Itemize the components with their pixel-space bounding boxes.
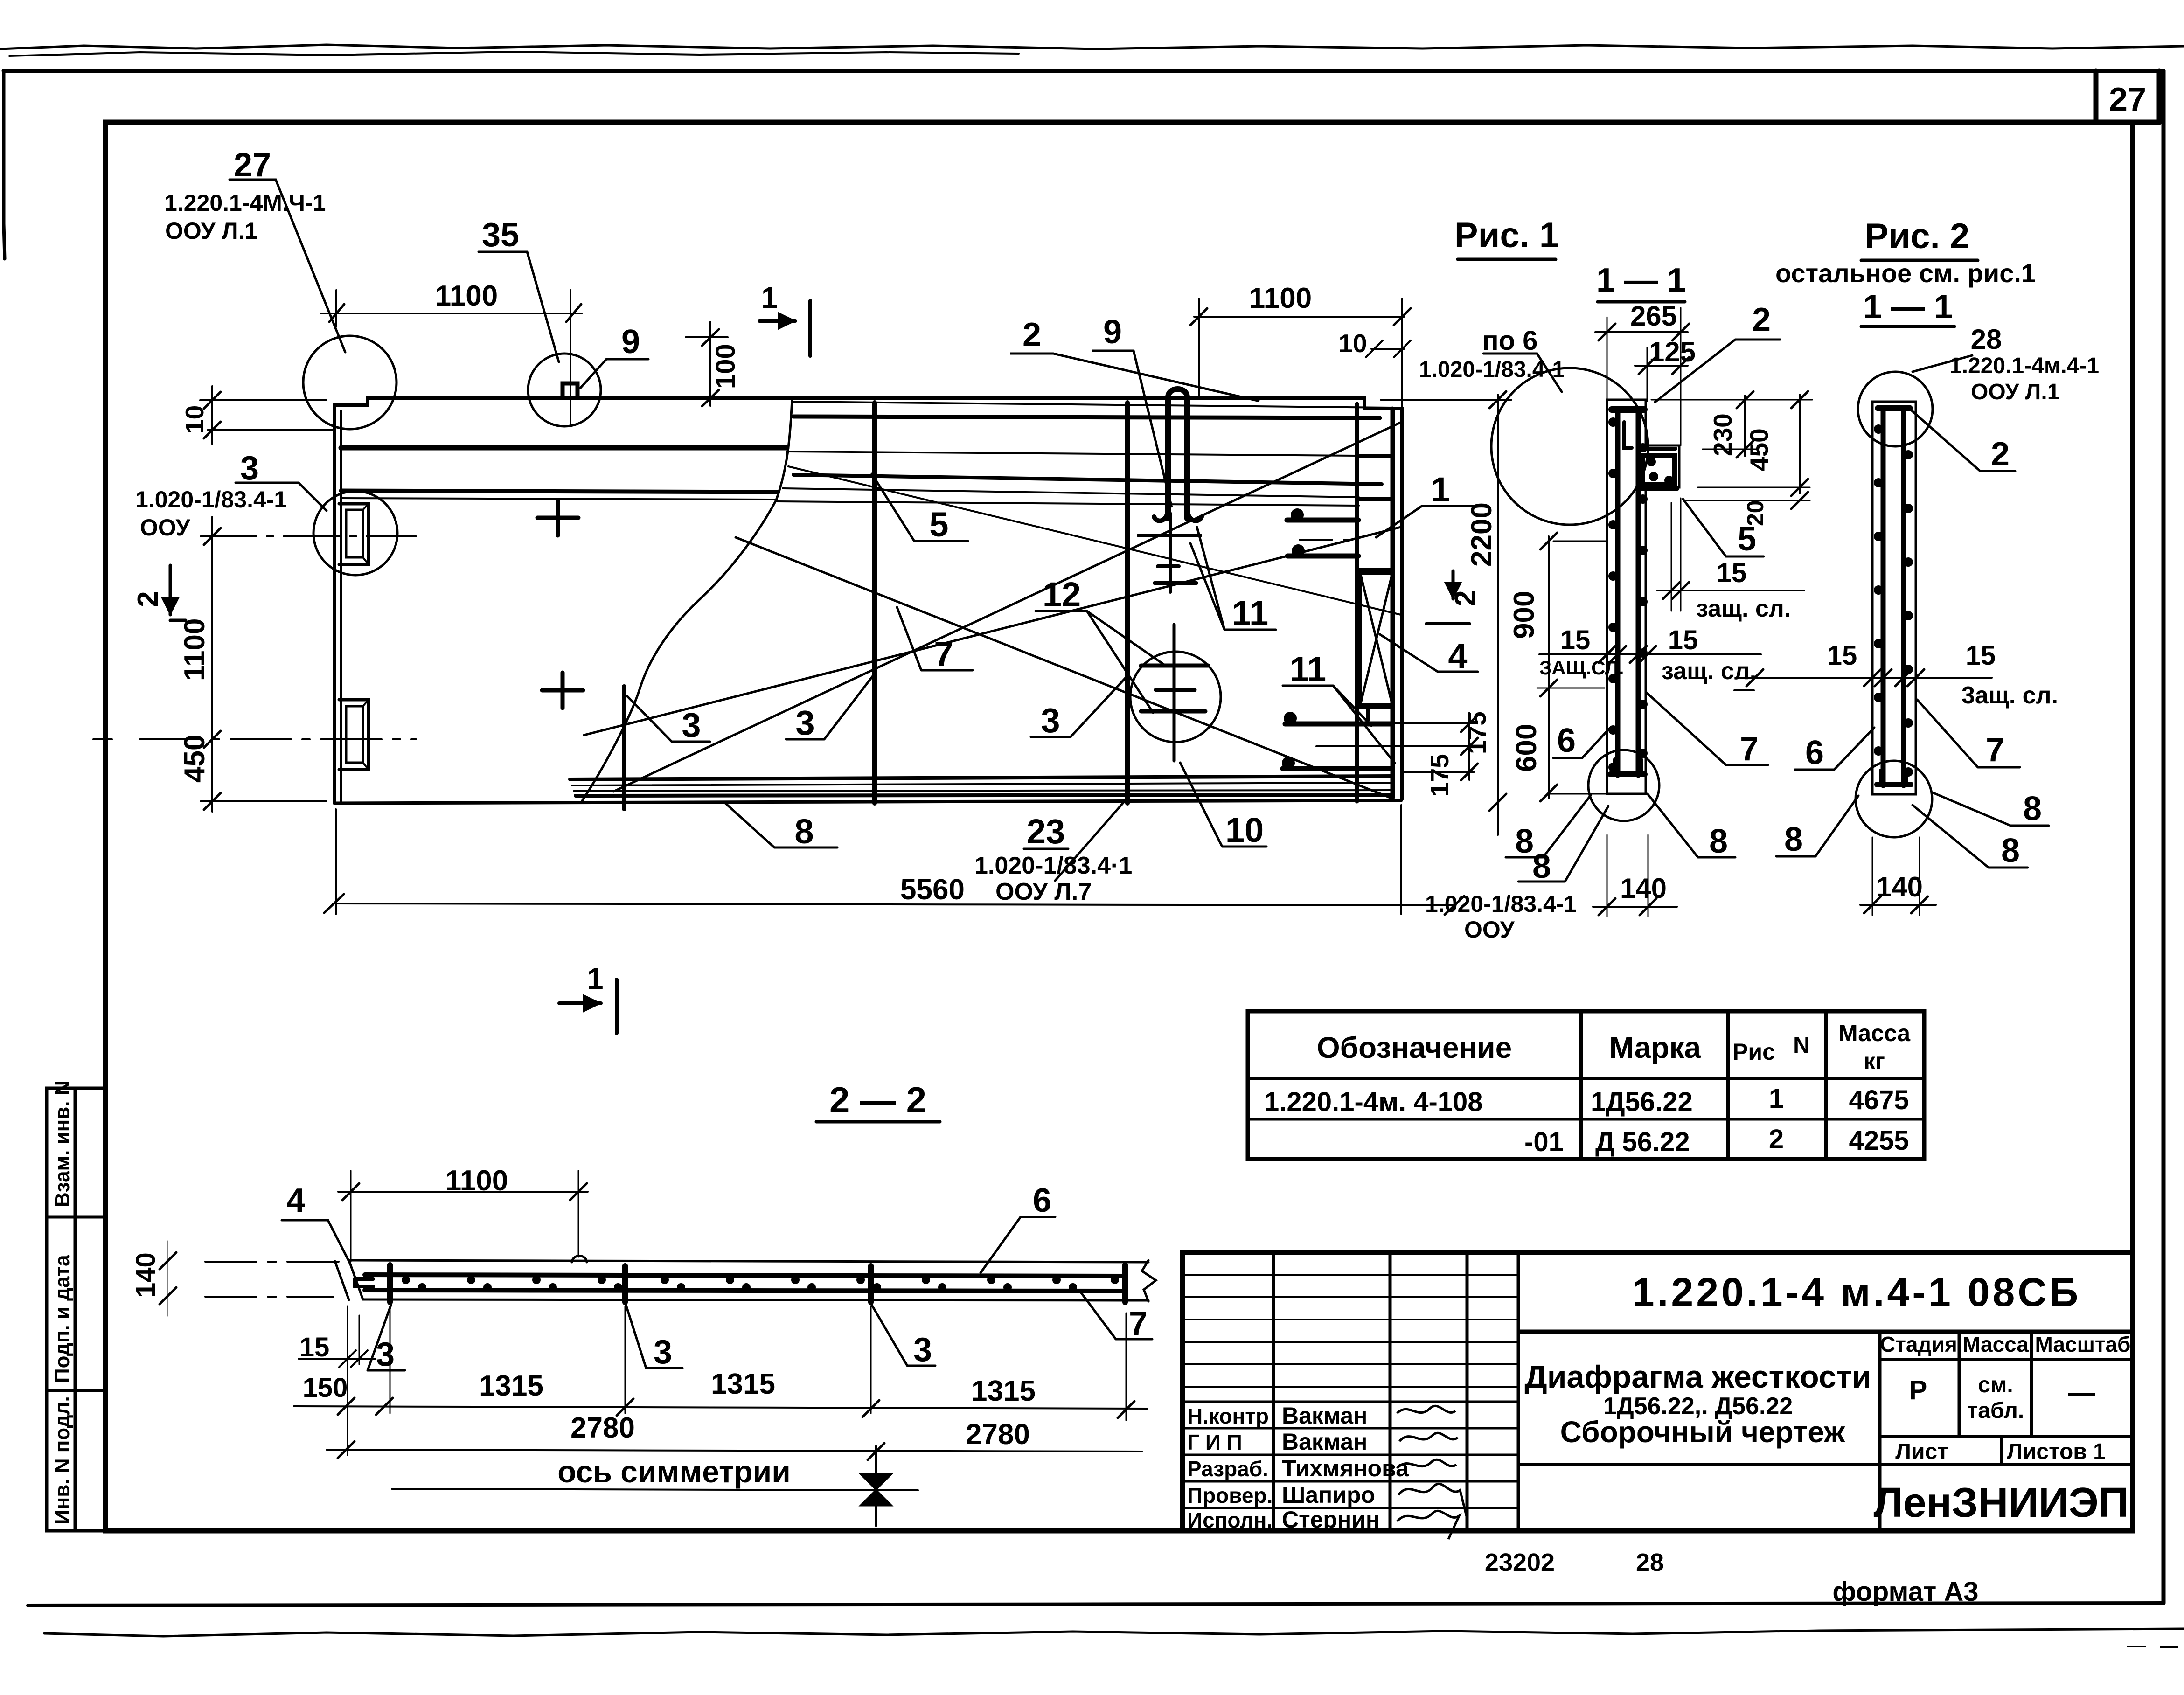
svg-text:1Д56.22: 1Д56.22 [1591, 1087, 1693, 1117]
svg-text:28: 28 [1636, 1549, 1664, 1577]
dim 450-20 ticks [1791, 391, 1808, 509]
svg-text:ЗАЩ.СЛ.: ЗАЩ.СЛ. [1539, 657, 1624, 679]
2-2 anchor bar 3 [868, 1266, 874, 1302]
dim 1100 left vertical line [211, 517, 213, 812]
svg-text:15: 15 [1966, 640, 1996, 671]
diagonal brace D2 [736, 537, 1390, 798]
svg-text:8: 8 [794, 812, 814, 851]
Ris1 cage top bar [1612, 406, 1644, 413]
svg-text:защ. сл.: защ. сл. [1662, 658, 1756, 685]
lower embedded item poz.3 outline [339, 700, 369, 770]
vertical bar 3b full height [872, 403, 877, 803]
cover line Ris2 [1740, 677, 1992, 679]
svg-text:7: 7 [1740, 730, 1759, 768]
panel left edge double line [333, 405, 336, 803]
leader 8c Ris1 [1648, 794, 1735, 857]
svg-text:Вакман: Вакман [1282, 1403, 1367, 1429]
dim 2200 ticks [1489, 391, 1506, 811]
leader 28 Ris2 [1913, 355, 1972, 372]
svg-text:8: 8 [1709, 823, 1728, 860]
svg-text:Рис: Рис [1732, 1039, 1775, 1065]
dim 1100 top-left ext lines [336, 290, 570, 425]
leader 27 [230, 180, 345, 352]
svg-text:1315: 1315 [479, 1370, 543, 1402]
svg-text:3: 3 [913, 1331, 932, 1369]
dim 5560 ticks [324, 894, 1464, 915]
dim 140 2-2 ticks [160, 1252, 176, 1304]
dot rebar end upper a [1291, 508, 1304, 521]
svg-text:6: 6 [1557, 722, 1576, 759]
svg-text:формат А3: формат А3 [1832, 1577, 1978, 1607]
leader 10 bottom [1180, 763, 1266, 847]
ext lines 230/450/20 [1651, 400, 1812, 500]
2-2 loop hump [572, 1256, 587, 1263]
svg-text:1: 1 [1431, 470, 1450, 509]
leader 8 right1 Ris2 [1934, 793, 2049, 826]
svg-text:Инв. N подл.: Инв. N подл. [51, 1396, 74, 1524]
cross mark 1 [537, 500, 578, 535]
svg-text:Рис. 1: Рис. 1 [1454, 215, 1559, 255]
Ris1 detail circle top [1491, 368, 1648, 525]
Ris1 console ledge [1638, 449, 1677, 489]
leader 7 Ris2 [1917, 700, 2020, 767]
Ris1 cage bottom bar [1610, 771, 1645, 777]
dim 175 ext lines right [1316, 723, 1474, 772]
Ris1 1-1 underline [1598, 300, 1685, 304]
dim 900/600 ticks [1540, 533, 1557, 801]
svg-text:2: 2 [132, 591, 164, 607]
cover dim upper ext lines [1671, 498, 1681, 611]
leader 3-2 2-2 [626, 1305, 682, 1368]
detail circle around middle tie [1130, 652, 1221, 742]
list row top line [1880, 1435, 2133, 1438]
dim 10 left ticks [204, 392, 221, 438]
top mesh thin pair right portion [783, 488, 1359, 497]
svg-text:Н.контр: Н.контр [1187, 1404, 1269, 1428]
cover dim upper: line, ticks [1657, 590, 1804, 591]
svg-text:2: 2 [1449, 590, 1482, 606]
dim 1100 left ticks [204, 528, 221, 810]
dim 2200 line [1497, 395, 1499, 835]
spec table outer box [1248, 1011, 1924, 1159]
Ris1 cage bottom hooks [1615, 759, 1641, 774]
svg-text:Масштаб: Масштаб [2035, 1332, 2131, 1356]
svg-text:1: 1 [761, 281, 778, 314]
section mark 1 bottom [559, 979, 617, 1033]
dim 2780 ticks [338, 1441, 884, 1460]
bar poz.11 lower a [1285, 722, 1391, 727]
leader 6 2-2 [981, 1217, 1055, 1273]
svg-text:2: 2 [1769, 1124, 1784, 1154]
dot rebar end lower b [1282, 757, 1295, 770]
spec table header line [1248, 1077, 1924, 1080]
panel top edge with corner notches [334, 398, 1402, 409]
dim 450 line [1799, 395, 1801, 493]
Ris2 rebar dots right [1904, 450, 1913, 777]
diagonal brace D3 [584, 527, 1401, 735]
svg-text:Диафрагма жесткости: Диафрагма жесткости [1524, 1359, 1871, 1395]
svg-text:15: 15 [1827, 640, 1857, 671]
svg-text:ООУ: ООУ [1464, 917, 1515, 943]
dim 1100 left ext lines [201, 800, 327, 802]
leader 3c [1031, 677, 1126, 737]
svg-text:2 — 2: 2 — 2 [829, 1079, 926, 1120]
dim chain 2-2 ext verticals [348, 1306, 1126, 1455]
svg-text:23: 23 [1027, 812, 1065, 851]
stadia header underline [1880, 1358, 2133, 1361]
upper embedded item poz.3 outline [339, 504, 369, 564]
svg-text:9: 9 [621, 323, 640, 361]
middle tie poz.12 vertical [1173, 625, 1176, 761]
ladder rung under X-box [1357, 705, 1392, 709]
svg-text:Вакман: Вакман [1282, 1429, 1367, 1455]
svg-text:7: 7 [1986, 731, 2004, 769]
svg-text:Д 56.22: Д 56.22 [1595, 1127, 1690, 1157]
2-2 axis dash line lower [205, 1296, 334, 1298]
dim 1100 top-right line [1194, 316, 1404, 318]
svg-text:Тихмянова: Тихмянова [1282, 1455, 1409, 1481]
2-2 left bevel cut [335, 1260, 363, 1300]
svg-text:ООУ: ООУ [140, 514, 191, 541]
top chord double line left portion [341, 491, 778, 492]
Ris2 cage bottom hooks [1881, 771, 1906, 785]
Ris2 cage top bar [1878, 405, 1910, 411]
svg-text:150: 150 [303, 1373, 348, 1403]
top edge thin line right portion [793, 402, 1393, 408]
dim 5560 line [333, 903, 1453, 905]
Ris1 rebar dots left [1608, 417, 1618, 772]
2-2 anchor bar 1 [387, 1265, 393, 1302]
outer sheet border right [2162, 71, 2166, 1603]
po 6 underline and leader [1483, 354, 1562, 392]
title block outer box [1182, 1252, 2133, 1531]
leader 3a [627, 696, 710, 742]
diagonal brace D1 [613, 422, 1401, 792]
Ris2 detail circle bottom [1856, 761, 1932, 837]
axis line of lower item [93, 738, 416, 740]
svg-text:Листов 1: Листов 1 [2007, 1439, 2106, 1464]
svg-text:Г И П: Г И П [1187, 1430, 1242, 1454]
bar poz.1 upper b [1287, 554, 1358, 559]
2-2 top rebar [365, 1275, 1125, 1276]
leader 9 top second [1092, 351, 1172, 507]
list row divider [2000, 1437, 2003, 1465]
dot rebar end upper b [1292, 544, 1305, 557]
spec table row line [1248, 1118, 1924, 1121]
leader 3-1 2-2 [368, 1305, 405, 1370]
svg-text:140: 140 [131, 1252, 161, 1298]
dim 125 line and ticks [1635, 365, 1688, 367]
svg-text:450: 450 [179, 735, 211, 783]
list row bottom line [1518, 1463, 2133, 1466]
leader 8b Ris1 [1518, 806, 1608, 882]
diagonal brace D4 [788, 466, 1401, 615]
vertical bar 3c full height [1125, 403, 1130, 803]
svg-text:230: 230 [1708, 413, 1737, 456]
ladder rung 2 [1357, 497, 1392, 501]
bar poz.11 lower b [1283, 766, 1391, 771]
detail circle top-left corner 27 [303, 336, 396, 429]
svg-text:Шапиро: Шапиро [1282, 1482, 1375, 1508]
end X-box [1360, 573, 1392, 705]
dim 10 left line [211, 386, 213, 444]
lifting loop poz.9 [1168, 389, 1187, 519]
torn paper bottom edge [44, 1629, 2184, 1636]
svg-text:4675: 4675 [1849, 1085, 1909, 1115]
svg-text:8: 8 [2001, 832, 2020, 869]
cover line mid ticks [1599, 646, 1656, 663]
svg-text:1.220.1-4м.4-1: 1.220.1-4м.4-1 [1949, 354, 2099, 378]
Ris2 title underline [1861, 259, 1978, 262]
dim 140 Ris2 ext [1872, 837, 1920, 915]
leader 2 Ris1 [1655, 340, 1780, 402]
svg-text:ось симметрии: ось симметрии [557, 1454, 791, 1489]
svg-text:7: 7 [1129, 1305, 1148, 1342]
svg-text:5: 5 [1738, 521, 1756, 558]
svg-text:28: 28 [1971, 324, 2002, 355]
svg-text:23202: 23202 [1485, 1549, 1555, 1577]
cover short line left Ris2 [1734, 689, 1754, 691]
leader 11 lower [1283, 686, 1395, 763]
Ris1 rebar dots right [1638, 443, 1674, 758]
dim 140 2-2 line [167, 1241, 168, 1316]
svg-text:см.: см. [1978, 1373, 2013, 1397]
leader 6 Ris1 [1553, 729, 1609, 758]
dim 175 vertical [1468, 713, 1470, 780]
svg-text:Исполн.: Исполн. [1187, 1508, 1273, 1532]
svg-text:1.220.1-4 м.4-1 08СБ: 1.220.1-4 м.4-1 08СБ [1632, 1270, 2081, 1315]
leader 23 [1024, 799, 1127, 881]
svg-text:9: 9 [1103, 313, 1122, 351]
leader 11 upper [1190, 527, 1276, 630]
svg-text:3ащ. сл.: 3ащ. сл. [1961, 682, 2058, 709]
dim 1100 top-right ext [1199, 299, 1402, 408]
svg-text:8: 8 [1784, 821, 1803, 858]
upper tie bars [1139, 534, 1200, 537]
axis of symmetry line [392, 1489, 918, 1490]
Ris1 detail circle bottom [1588, 750, 1659, 821]
svg-text:3: 3 [682, 706, 701, 744]
top mesh line right portion [787, 452, 1357, 456]
svg-text:8: 8 [1515, 823, 1534, 860]
2-2 axis dash line upper [205, 1261, 345, 1263]
svg-text:15: 15 [1717, 558, 1747, 588]
dim 100 ticks [702, 329, 719, 406]
outer sheet border top [4, 69, 2163, 73]
axis line of upper item [201, 535, 416, 537]
Ris1 console rebar box [1642, 456, 1675, 485]
panel right edge double line [1400, 409, 1404, 799]
title block column lines left part [1273, 1252, 1518, 1531]
leader 8 [725, 803, 837, 847]
svg-text:Масса: Масса [1838, 1020, 1911, 1046]
svg-text:15: 15 [1560, 625, 1591, 655]
svg-text:15: 15 [1668, 625, 1698, 655]
svg-text:Лист: Лист [1895, 1439, 1948, 1464]
2-2 slab bottom edge [363, 1299, 1148, 1300]
end ladder vertical inner [1355, 404, 1359, 801]
svg-text:1315: 1315 [971, 1375, 1036, 1407]
svg-text:11: 11 [1232, 594, 1268, 632]
svg-text:125: 125 [1649, 336, 1696, 368]
dim 1100 top-left line [321, 313, 582, 314]
svg-text:11: 11 [1290, 650, 1326, 688]
dot rebar end lower a [1284, 712, 1297, 725]
svg-text:1100: 1100 [445, 1165, 508, 1197]
svg-text:175: 175 [1462, 711, 1491, 754]
svg-text:1 — 1: 1 — 1 [1863, 288, 1953, 326]
loop hook left [1154, 511, 1168, 521]
svg-text:1.220.1-4м. 4-108: 1.220.1-4м. 4-108 [1264, 1087, 1483, 1117]
leader 9 [580, 359, 648, 388]
spec table column lines [1581, 1011, 1826, 1159]
2-2 rebar dots upper row [402, 1276, 1119, 1284]
svg-text:-01: -01 [1524, 1127, 1564, 1157]
svg-text:900: 900 [1508, 591, 1540, 639]
leader 3-3 2-2 [872, 1305, 935, 1366]
svg-text:6: 6 [1805, 734, 1824, 771]
svg-text:Подп. и дата: Подп. и дата [51, 1255, 74, 1383]
svg-text:по 6: по 6 [1482, 326, 1538, 356]
Ris1 cage left bar [1615, 410, 1621, 775]
upper tie poz.11 vertical [1169, 513, 1172, 592]
svg-text:4: 4 [1448, 637, 1467, 675]
leader 3b [786, 675, 873, 739]
ladder rung top [1357, 454, 1392, 458]
dim 100 ext [686, 336, 728, 338]
signature squiggles [1397, 1406, 1467, 1539]
Ris2 column concrete outline [1872, 402, 1916, 794]
outer sheet border left (partial) [4, 71, 5, 259]
svg-text:1.020-1/83.4·1: 1.020-1/83.4·1 [974, 852, 1132, 879]
outer sheet border bottom [28, 1603, 2163, 1605]
svg-text:кг: кг [1864, 1048, 1885, 1074]
sidebar cell divider 2 [47, 1389, 105, 1392]
leader 4 right [1380, 634, 1478, 672]
leader 35 [479, 252, 559, 362]
leader 2 top [1010, 354, 1259, 401]
ladder stub [1366, 707, 1370, 721]
svg-text:2780: 2780 [966, 1418, 1030, 1451]
svg-text:2: 2 [1991, 436, 2010, 473]
svg-text:140: 140 [1876, 871, 1923, 903]
detail circle around upper embedded item [313, 491, 397, 575]
Ris1 cage hook top [1624, 422, 1632, 448]
svg-text:265: 265 [1630, 300, 1677, 332]
dim 1100 2-2 ticks [342, 1183, 587, 1200]
ladder rung 3 [1357, 568, 1392, 572]
dim 1100 2-2 line [338, 1191, 588, 1193]
section mark 1 top [759, 301, 810, 356]
svg-text:3: 3 [1041, 701, 1060, 740]
dim 140 Ris2 line/ticks [1860, 904, 1936, 906]
svg-text:ООУ Л.1: ООУ Л.1 [165, 218, 257, 244]
leader 2 Ris2 [1912, 410, 2015, 471]
svg-text:2: 2 [1022, 316, 1041, 354]
footer dashes right [2127, 1646, 2178, 1647]
sheet number box 27 [2096, 71, 2159, 122]
svg-text:Стернин: Стернин [1282, 1507, 1380, 1533]
end X-box diagonals [1360, 573, 1392, 705]
end ladder vertical outer [1391, 409, 1395, 799]
svg-text:3: 3 [376, 1336, 395, 1373]
svg-text:2200: 2200 [1466, 502, 1498, 567]
dim 175 ticks [1461, 715, 1478, 780]
svg-text:Разраб.: Разраб. [1187, 1457, 1268, 1481]
Ris2 detail circle top [1858, 372, 1933, 446]
cross mark 2 [542, 673, 583, 708]
dim 2780 line [327, 1450, 1142, 1452]
leader 1 right [1376, 506, 1473, 537]
Ris2 cage right bar [1901, 408, 1906, 785]
svg-text:Марка: Марка [1609, 1031, 1701, 1064]
svg-text:5560: 5560 [900, 874, 965, 906]
section mark 2 left [170, 565, 186, 620]
left stamp sidebar [47, 1088, 105, 1531]
svg-text:Стадия: Стадия [1880, 1332, 1957, 1356]
svg-text:175: 175 [1425, 754, 1454, 797]
svg-text:N: N [1793, 1032, 1810, 1058]
svg-text:1315: 1315 [711, 1368, 775, 1400]
leader 3 left [236, 483, 327, 511]
stadia columns [1880, 1332, 2031, 1531]
dim 5560 ext lines [336, 805, 1401, 914]
dim 140 Ris1 ext [1607, 835, 1648, 917]
svg-text:3: 3 [795, 703, 814, 742]
svg-text:остальное см. рис.1: остальное см. рис.1 [1775, 258, 2036, 288]
sidebar cell divider 1 [47, 1216, 105, 1219]
svg-text:27: 27 [234, 146, 271, 184]
svg-text:2: 2 [1752, 301, 1771, 339]
svg-text:—: — [2068, 1377, 2095, 1408]
top chord bar left portion [341, 445, 787, 451]
svg-text:Рис. 2: Рис. 2 [1865, 216, 1969, 256]
vertical bar 3a short [622, 687, 626, 809]
svg-text:ООУ Л.7: ООУ Л.7 [995, 878, 1092, 905]
2-2 anchor bar 2 [622, 1266, 628, 1302]
dim 15 2-2 line/ticks [299, 1350, 376, 1367]
dim 10 top-right [1366, 340, 1411, 357]
dim chain ticks [338, 1398, 1134, 1418]
svg-text:3: 3 [240, 450, 259, 487]
svg-text:10: 10 [180, 405, 209, 434]
svg-text:1 — 1: 1 — 1 [1596, 262, 1686, 299]
svg-text:Обозначение: Обозначение [1317, 1031, 1512, 1064]
2-2 left anchor detail [355, 1279, 373, 1286]
dim 230 ticks [1737, 391, 1753, 458]
svg-text:5: 5 [929, 505, 948, 544]
leader 5 Ris1 [1683, 499, 1764, 556]
2-2 title underline [816, 1120, 940, 1124]
svg-text:600: 600 [1510, 724, 1543, 772]
leader 7 [897, 607, 973, 670]
svg-text:35: 35 [482, 216, 519, 254]
symmetry bowtie [860, 1474, 892, 1506]
svg-text:Р: Р [1909, 1375, 1927, 1405]
svg-text:табл.: табл. [1967, 1398, 2024, 1423]
inner drawing frame [105, 122, 2133, 1531]
2-2 rebar dots lower row [418, 1283, 1077, 1292]
leader 12 (two tails) [1036, 611, 1166, 713]
title block thin rows upper left [1182, 1275, 1518, 1387]
dim 265 line and ticks [1595, 331, 1688, 333]
cover line Ris2 ticks [1746, 669, 1924, 686]
leader 8a Ris1 [1506, 795, 1591, 857]
2-2 bottom rebar [365, 1290, 1125, 1291]
svg-text:140: 140 [1620, 873, 1667, 904]
2-2 slab top edge [349, 1260, 1148, 1262]
svg-text:450: 450 [1745, 428, 1774, 471]
